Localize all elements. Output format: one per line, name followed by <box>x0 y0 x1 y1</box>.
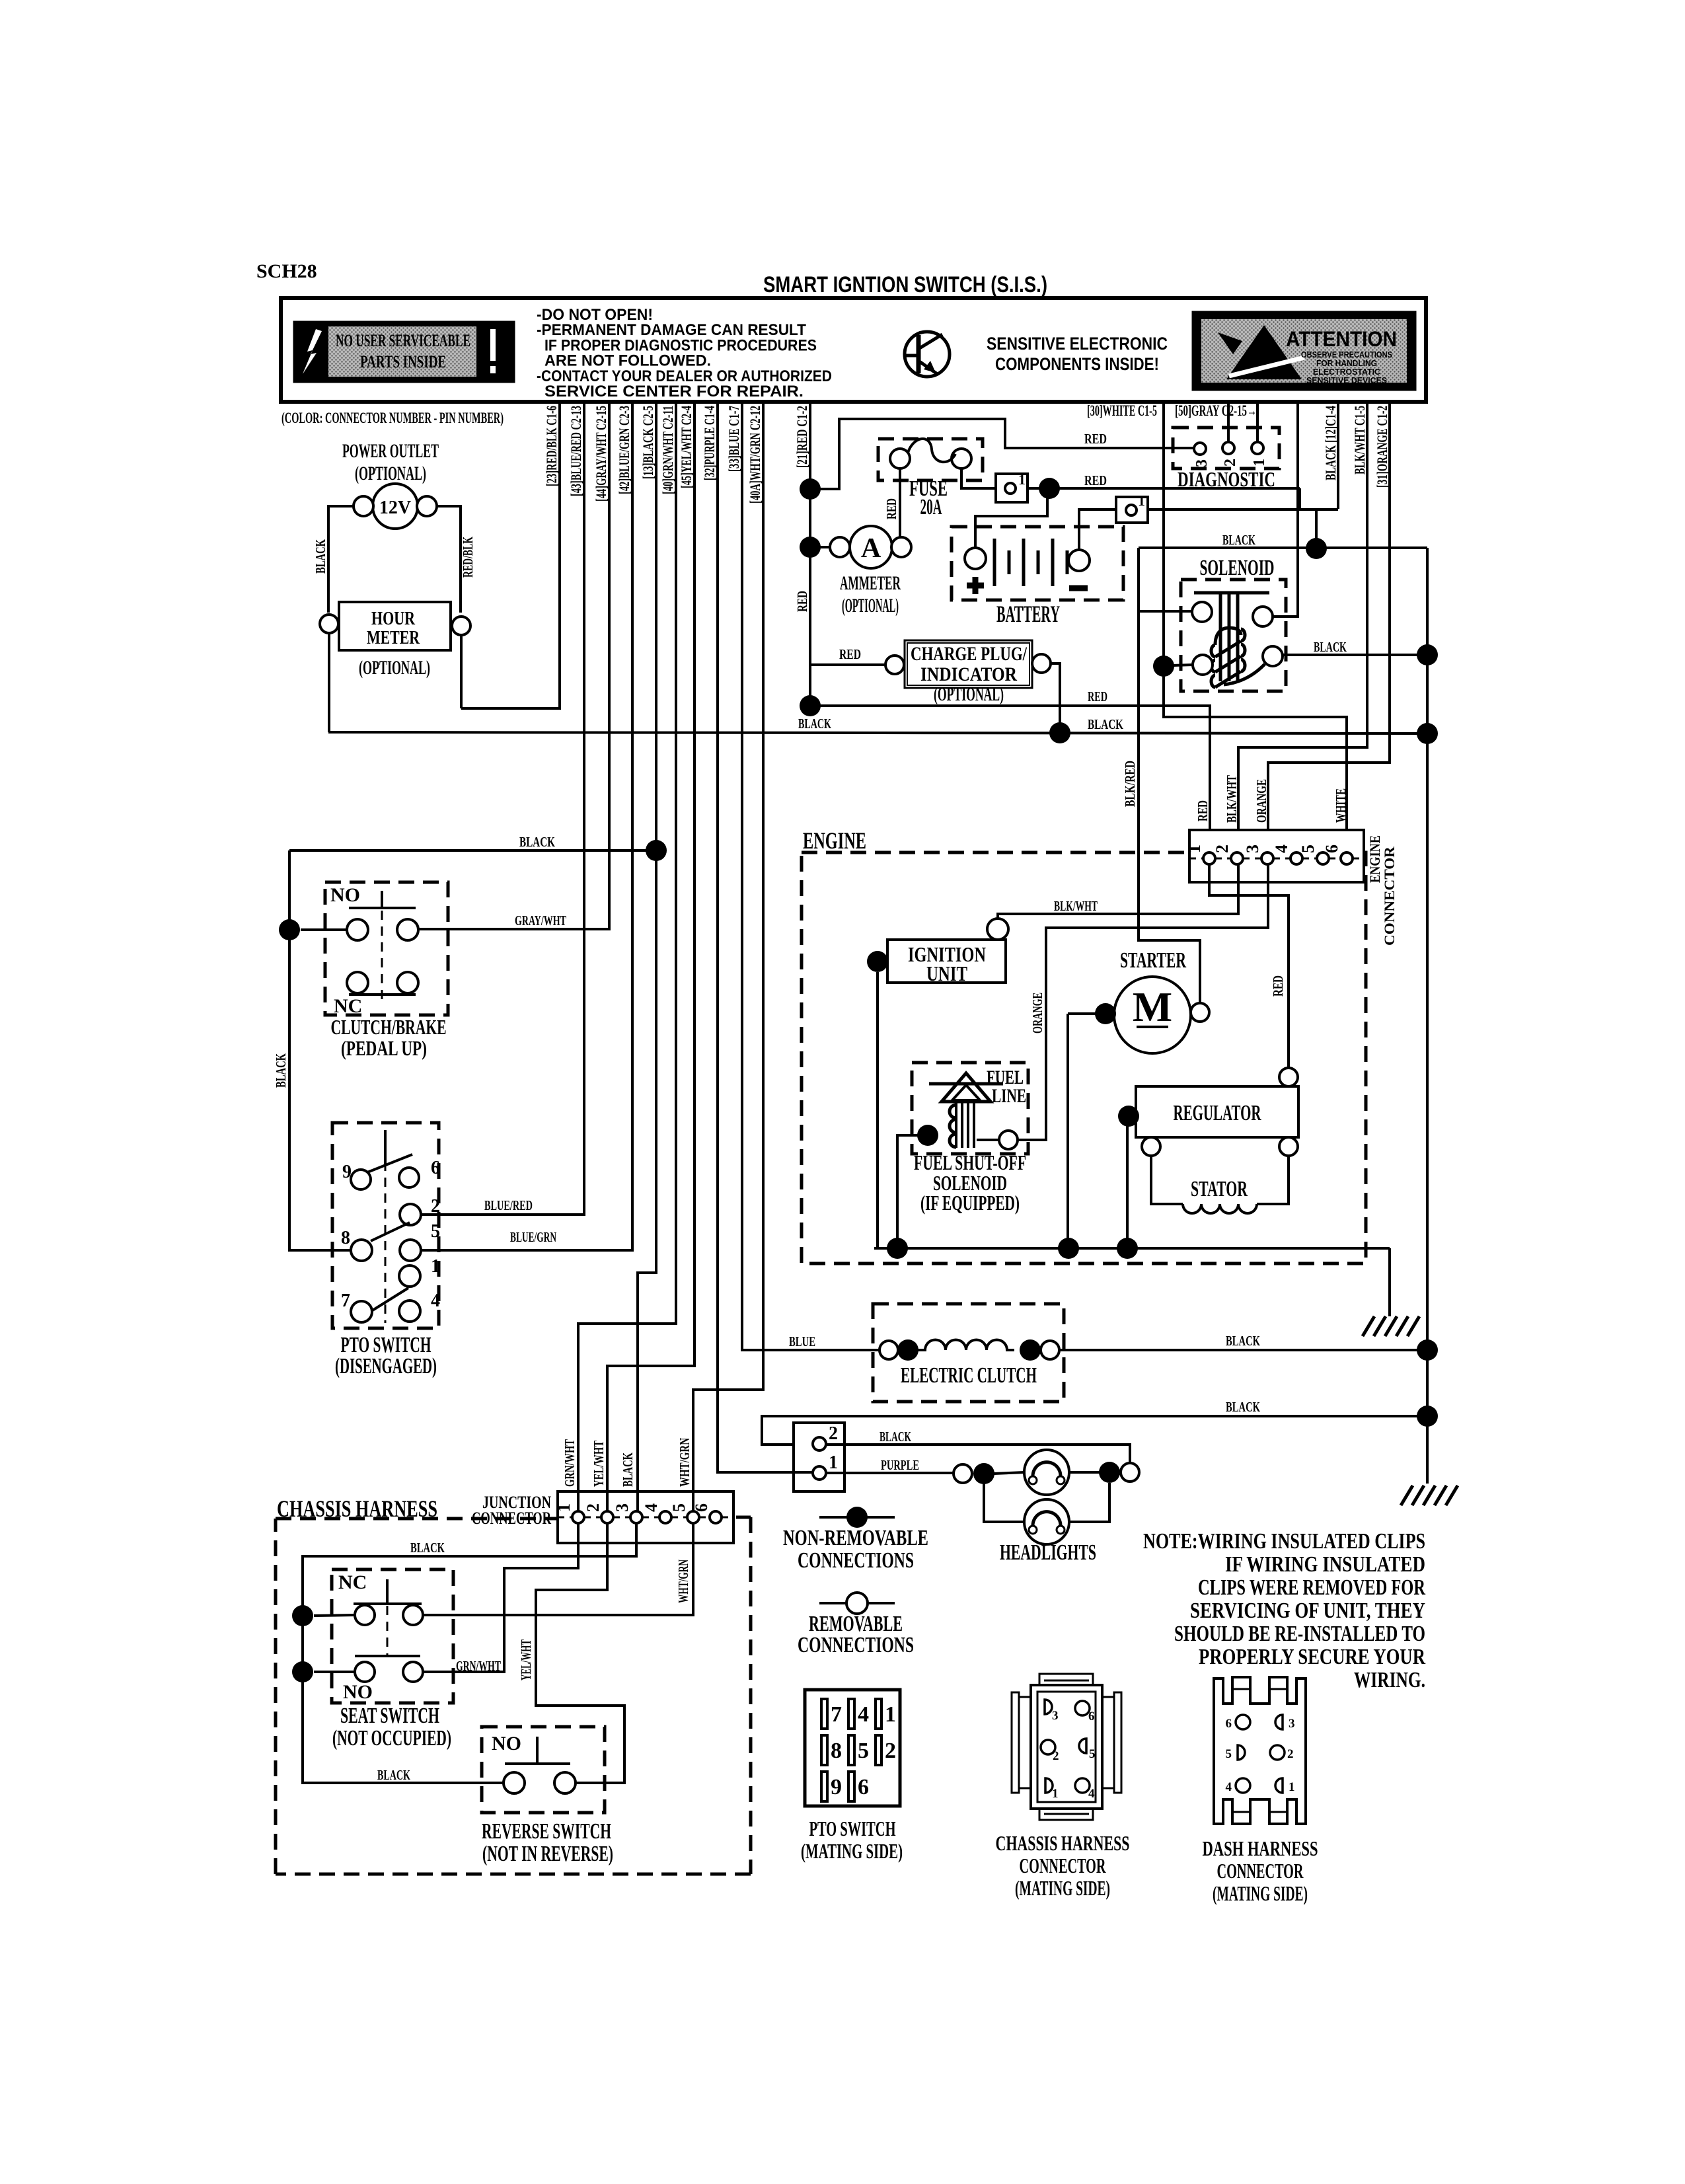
svg-text:BATTERY: BATTERY <box>996 601 1060 627</box>
svg-text:REGULATOR: REGULATOR <box>1174 1101 1261 1125</box>
svg-text:6: 6 <box>858 1775 869 1799</box>
svg-text:[30]WHITE C1-5: [30]WHITE C1-5 <box>1087 402 1157 419</box>
svg-text:[50]GRAY C2-15→: [50]GRAY C2-15→ <box>1175 402 1257 419</box>
svg-text:STARTER: STARTER <box>1120 948 1186 973</box>
svg-text:YEL/WHT: YEL/WHT <box>591 1441 607 1487</box>
svg-text:(NOT OCCUPIED): (NOT OCCUPIED) <box>332 1726 451 1751</box>
svg-text:8: 8 <box>341 1228 350 1248</box>
svg-text:(OPTIONAL): (OPTIONAL) <box>842 595 899 617</box>
svg-text:BLK/RED: BLK/RED <box>1122 761 1138 807</box>
svg-text:POWER OUTLET: POWER OUTLET <box>342 440 439 462</box>
svg-text:REVERSE SWITCH: REVERSE SWITCH <box>482 1819 611 1844</box>
svg-text:2: 2 <box>829 1423 838 1444</box>
svg-text:(PEDAL UP): (PEDAL UP) <box>341 1036 427 1060</box>
svg-text:5: 5 <box>431 1221 440 1242</box>
svg-text:4: 4 <box>431 1291 440 1311</box>
svg-text:RED: RED <box>883 498 899 519</box>
svg-text:2: 2 <box>885 1739 896 1763</box>
svg-text:4: 4 <box>1088 1787 1095 1801</box>
svg-text:2: 2 <box>431 1196 440 1217</box>
svg-text:OBSERVE PRECAUTIONS: OBSERVE PRECAUTIONS <box>1301 350 1392 359</box>
svg-text:ELECTROSTATIC: ELECTROSTATIC <box>1313 367 1380 377</box>
svg-text:SERVICING OF UNIT, THEY: SERVICING OF UNIT, THEY <box>1190 1599 1425 1623</box>
svg-text:HOUR: HOUR <box>371 609 416 629</box>
svg-text:SMART IGNTION SWITCH (S.I.S.): SMART IGNTION SWITCH (S.I.S.) <box>763 272 1047 297</box>
svg-text:DASH HARNESS: DASH HARNESS <box>1203 1836 1318 1860</box>
svg-text:CONNECTOR: CONNECTOR <box>1381 846 1398 946</box>
svg-text:ORANGE: ORANGE <box>1030 993 1045 1034</box>
svg-text:FOR HANDLING: FOR HANDLING <box>1316 359 1377 368</box>
svg-text:BLK/WHT C1-5: BLK/WHT C1-5 <box>1351 406 1368 474</box>
svg-text:3: 3 <box>1193 459 1211 467</box>
svg-text:(OPTIONAL): (OPTIONAL) <box>355 463 426 484</box>
svg-text:RED: RED <box>1084 431 1107 447</box>
svg-text:RED: RED <box>794 591 810 612</box>
svg-text:[42]BLUE/GRN C2-3: [42]BLUE/GRN C2-3 <box>616 406 632 494</box>
svg-text:BLACK: BLACK <box>273 1053 289 1088</box>
svg-text:(NOT IN REVERSE): (NOT IN REVERSE) <box>482 1842 613 1866</box>
svg-text:[21]RED C1-2: [21]RED C1-2 <box>794 406 810 468</box>
svg-text:BLUE/RED: BLUE/RED <box>484 1197 533 1213</box>
svg-text:SENSITIVE ELECTRONIC: SENSITIVE ELECTRONIC <box>987 334 1168 354</box>
svg-text:NO: NO <box>492 1733 521 1754</box>
svg-text:3: 3 <box>613 1503 632 1512</box>
svg-text:SOLENOID: SOLENOID <box>1200 556 1275 580</box>
svg-text:CHASSIS HARNESS: CHASSIS HARNESS <box>996 1831 1130 1855</box>
svg-text:PROPERLY SECURE YOUR: PROPERLY SECURE YOUR <box>1199 1645 1425 1669</box>
svg-text:6: 6 <box>1088 1710 1095 1723</box>
svg-text:[13]BLACK C2-5: [13]BLACK C2-5 <box>640 406 656 479</box>
svg-text:SERVICE CENTER FOR REPAIR.: SERVICE CENTER FOR REPAIR. <box>544 383 804 400</box>
svg-text:PURPLE: PURPLE <box>881 1457 919 1473</box>
svg-text:ELECTRIC CLUTCH: ELECTRIC CLUTCH <box>901 1363 1037 1388</box>
svg-text:[40]GRN/WHT C2-11: [40]GRN/WHT C2-11 <box>659 406 676 494</box>
svg-text:(OPTIONAL): (OPTIONAL) <box>359 657 430 679</box>
svg-text:M: M <box>1133 983 1172 1030</box>
svg-text:BLACK: BLACK <box>1314 639 1347 655</box>
svg-text:BLACK: BLACK <box>519 834 555 850</box>
svg-text:YEL/WHT: YEL/WHT <box>518 1639 534 1680</box>
svg-text:WHT/GRN: WHT/GRN <box>677 1438 693 1487</box>
svg-text:12V: 12V <box>379 498 411 518</box>
svg-text:(MATING SIDE): (MATING SIDE) <box>1015 1876 1110 1900</box>
svg-text:NC: NC <box>334 995 362 1017</box>
svg-text:WHT/GRN: WHT/GRN <box>675 1560 691 1603</box>
svg-text:BLACK: BLACK <box>313 539 328 574</box>
svg-text:(MATING SIDE): (MATING SIDE) <box>801 1839 903 1863</box>
svg-text:[31]ORANGE C1-2: [31]ORANGE C1-2 <box>1374 406 1390 488</box>
svg-text:RED: RED <box>1084 472 1107 488</box>
svg-text:CONNECTOR: CONNECTOR <box>1217 1859 1304 1883</box>
svg-text:8: 8 <box>831 1739 842 1763</box>
svg-text:[33]BLUE C1-7: [33]BLUE C1-7 <box>726 406 742 472</box>
svg-text:(DISENGAGED): (DISENGAGED) <box>335 1354 437 1378</box>
svg-text:6: 6 <box>1226 1717 1232 1731</box>
svg-text:CONNECTOR: CONNECTOR <box>472 1509 551 1528</box>
svg-text:PARTS INSIDE: PARTS INSIDE <box>360 352 446 371</box>
svg-text:BLACK: BLACK <box>798 716 831 732</box>
svg-text:5: 5 <box>1298 845 1318 853</box>
svg-text:1: 1 <box>885 1702 896 1727</box>
svg-text:4: 4 <box>1272 845 1291 853</box>
svg-text:(IF EQUIPPED): (IF EQUIPPED) <box>920 1191 1020 1215</box>
svg-text:CONNECTIONS: CONNECTIONS <box>798 1548 914 1573</box>
svg-text:2: 2 <box>1222 459 1239 467</box>
svg-text:3: 3 <box>1052 1709 1059 1723</box>
svg-text:6: 6 <box>692 1503 711 1512</box>
svg-text:BLACK: BLACK <box>377 1767 410 1783</box>
svg-text:BLACK [12]C1-4: BLACK [12]C1-4 <box>1322 406 1339 480</box>
svg-text:GRN/WHT: GRN/WHT <box>562 1439 578 1487</box>
svg-text:LINE: LINE <box>992 1085 1026 1107</box>
svg-text:BLACK: BLACK <box>1222 532 1255 548</box>
svg-text:4: 4 <box>1226 1780 1232 1794</box>
svg-text:STATOR: STATOR <box>1191 1177 1248 1201</box>
svg-text:RED: RED <box>1195 800 1211 821</box>
svg-text:6: 6 <box>1322 845 1341 853</box>
svg-text:9: 9 <box>831 1775 842 1799</box>
svg-text:BLACK: BLACK <box>1226 1399 1260 1415</box>
svg-text:INDICATOR: INDICATOR <box>920 663 1017 685</box>
svg-text:BLACK: BLACK <box>880 1429 911 1445</box>
svg-text:[32]PURPLE C1-4: [32]PURPLE C1-4 <box>701 406 718 480</box>
svg-text:1: 1 <box>1289 1780 1295 1794</box>
svg-text:NO USER SERVICEABLE: NO USER SERVICEABLE <box>336 331 470 350</box>
svg-text:3: 3 <box>1243 845 1262 853</box>
svg-text:ORANGE: ORANGE <box>1254 779 1269 823</box>
svg-text:RED/BLK: RED/BLK <box>460 537 476 578</box>
svg-text:1: 1 <box>829 1452 838 1473</box>
svg-text:BLK/WHT: BLK/WHT <box>1224 775 1240 823</box>
svg-text:UNIT: UNIT <box>926 961 967 985</box>
svg-text:4: 4 <box>858 1702 869 1727</box>
svg-text:1: 1 <box>1185 845 1204 853</box>
svg-text:[45]YEL/WHT C2-4: [45]YEL/WHT C2-4 <box>678 406 694 488</box>
svg-text:7: 7 <box>831 1702 842 1727</box>
svg-text:NO: NO <box>330 884 360 906</box>
svg-text:2: 2 <box>1213 845 1232 853</box>
svg-text:4: 4 <box>642 1503 661 1512</box>
svg-text:WHITE: WHITE <box>1333 788 1349 823</box>
svg-text:METER: METER <box>367 628 420 648</box>
svg-text:BLACK: BLACK <box>1088 716 1123 732</box>
svg-text:BLACK: BLACK <box>410 1540 445 1556</box>
svg-text:9: 9 <box>342 1162 352 1182</box>
svg-text:5: 5 <box>1089 1747 1096 1761</box>
svg-text:NON-REMOVABLE: NON-REMOVABLE <box>783 1526 928 1550</box>
svg-text:[40A]WHT/GRN C2-12: [40A]WHT/GRN C2-12 <box>747 406 763 504</box>
svg-text:COMPONENTS INSIDE!: COMPONENTS INSIDE! <box>995 354 1159 374</box>
svg-text:HEADLIGHTS: HEADLIGHTS <box>1000 1540 1096 1565</box>
svg-text:1: 1 <box>554 1503 574 1512</box>
svg-text:BLUE: BLUE <box>789 1334 815 1349</box>
svg-text:1: 1 <box>431 1256 440 1277</box>
svg-text:2: 2 <box>583 1503 603 1512</box>
svg-text:(COLOR: CONNECTOR NUMBER - PIN: (COLOR: CONNECTOR NUMBER - PIN NUMBER) <box>281 410 504 426</box>
svg-text:DIAGNOSTIC: DIAGNOSTIC <box>1178 467 1275 491</box>
svg-text:A: A <box>861 533 881 564</box>
svg-text:[44]GRAY/WHT C2-15: [44]GRAY/WHT C2-15 <box>593 406 609 502</box>
svg-text:GRN/WHT: GRN/WHT <box>456 1658 501 1674</box>
svg-text:ENGINE: ENGINE <box>803 827 866 854</box>
svg-text:NO: NO <box>343 1681 373 1703</box>
svg-text:NOTE:WIRING INSULATED CLIPS: NOTE:WIRING INSULATED CLIPS <box>1143 1529 1425 1554</box>
svg-text:SENSITIVE DEVICES: SENSITIVE DEVICES <box>1306 376 1387 385</box>
svg-text:NC: NC <box>338 1571 367 1593</box>
svg-text:BLK/WHT: BLK/WHT <box>1054 898 1098 914</box>
svg-text:PTO SWITCH: PTO SWITCH <box>809 1817 896 1840</box>
svg-text:CONNECTIONS: CONNECTIONS <box>798 1633 914 1657</box>
svg-text:6: 6 <box>431 1158 440 1178</box>
svg-text:(MATING SIDE): (MATING SIDE) <box>1213 1881 1308 1905</box>
svg-text:BLACK: BLACK <box>620 1452 636 1487</box>
svg-text:BLUE/GRN: BLUE/GRN <box>510 1229 556 1245</box>
svg-text:[43]BLUE/RED C2-13: [43]BLUE/RED C2-13 <box>568 406 584 496</box>
svg-text:5: 5 <box>858 1739 869 1763</box>
svg-text:AMMETER: AMMETER <box>840 572 901 594</box>
svg-text:[23]RED/BLK C1-6: [23]RED/BLK C1-6 <box>543 406 560 486</box>
svg-text:SCH28: SCH28 <box>256 260 317 282</box>
svg-text:CLUTCH/BRAKE: CLUTCH/BRAKE <box>331 1015 447 1039</box>
svg-text:WIRING.: WIRING. <box>1354 1668 1425 1692</box>
svg-text:SEAT SWITCH: SEAT SWITCH <box>340 1704 439 1728</box>
svg-text:1: 1 <box>1052 1787 1059 1801</box>
svg-text:1: 1 <box>1251 459 1268 467</box>
svg-text:IF WIRING INSULATED: IF WIRING INSULATED <box>1225 1552 1425 1577</box>
svg-text:RED: RED <box>1270 975 1286 997</box>
svg-text:GRAY/WHT: GRAY/WHT <box>515 913 566 928</box>
svg-text:CHARGE PLUG/: CHARGE PLUG/ <box>911 643 1027 665</box>
svg-text:RED: RED <box>1088 689 1107 704</box>
svg-text:CLIPS WERE REMOVED FOR: CLIPS WERE REMOVED FOR <box>1198 1575 1425 1600</box>
svg-text:3: 3 <box>1289 1717 1295 1731</box>
svg-text:1: 1 <box>1018 471 1026 488</box>
svg-text:2: 2 <box>1287 1747 1294 1761</box>
svg-text:BLACK: BLACK <box>1226 1333 1260 1349</box>
svg-text:CONNECTOR: CONNECTOR <box>1020 1854 1107 1877</box>
svg-text:2: 2 <box>1053 1749 1059 1763</box>
svg-text:SHOULD BE RE-INSTALLED TO: SHOULD BE RE-INSTALLED TO <box>1174 1622 1425 1646</box>
svg-text:(OPTIONAL): (OPTIONAL) <box>934 685 1004 705</box>
svg-text:5: 5 <box>669 1503 689 1512</box>
svg-text:20A: 20A <box>920 495 942 519</box>
svg-text:RED: RED <box>839 646 861 662</box>
svg-text:1: 1 <box>1138 492 1145 509</box>
svg-text:ATTENTION: ATTENTION <box>1286 327 1397 351</box>
svg-text:7: 7 <box>341 1291 350 1311</box>
svg-text:5: 5 <box>1226 1747 1232 1761</box>
